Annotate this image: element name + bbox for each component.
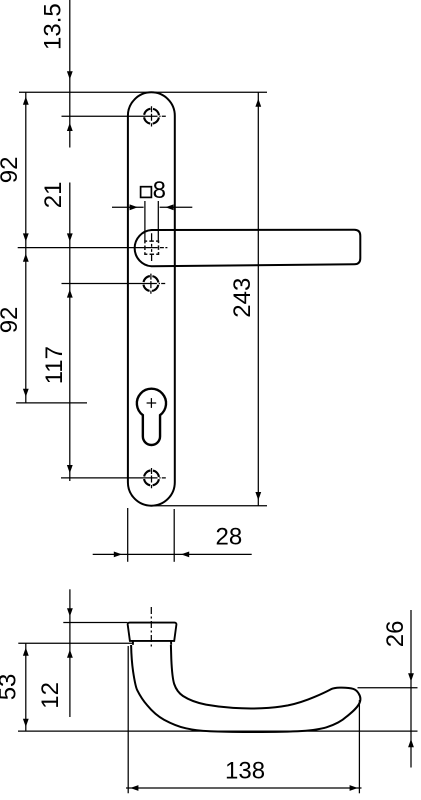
keyhole cross [147,402,157,404]
extension 26 top [358,687,418,689]
arrow 92u bottom [23,233,29,241]
arrow 12 upper [67,608,73,616]
svg-text:12: 12 [37,682,64,709]
svg-text:8: 8 [153,177,166,204]
arrow 92l bottom [23,389,29,397]
square symbol of label [141,187,152,198]
svg-text:28: 28 [216,524,243,551]
arrow 53 lower [23,719,29,727]
spindle square hidden [145,241,159,254]
arrow 117 lower [67,465,73,473]
svg-text:53: 53 [0,674,22,701]
plate outline [128,92,175,505]
handle grip profile [131,645,360,732]
extension lines 28 [127,508,129,562]
extension 138 right [358,700,360,793]
screw hole middle [143,276,158,291]
screw hole top [144,109,159,124]
dimension 26 vertical [410,610,412,768]
arrow 13.5 upper [67,71,73,79]
svg-text:138: 138 [225,758,265,785]
arrow 92u top [23,97,29,105]
hub block (top view) [128,623,177,641]
arrow 53 upper [23,648,29,656]
arrow 138 right [350,785,358,791]
arrow 12 lower [67,650,73,658]
dimension column x=70 lower segment [69,183,71,482]
dimension column x=26 (92 upper / 92 lower) [25,92,27,403]
extension line spindle centerline [18,247,158,249]
spindle vertical centerline [151,233,153,261]
arrow 26 lower [408,739,414,747]
arrow 243 bottom [255,492,261,500]
arrow 26 upper [408,673,414,681]
svg-text:243: 243 [229,278,256,318]
extension collar bottom [18,642,133,644]
extension line screw3 centerline [61,477,158,479]
extension handle bottom tangent [18,730,418,732]
euro cylinder keyhole [137,389,166,445]
screw hole bottom [144,470,159,485]
arrow 117 upper [67,289,73,297]
extension line plate bottom [150,505,267,507]
hub collar [133,641,171,645]
svg-text:13.5: 13.5 [40,3,67,50]
dimension 28 [93,553,252,555]
dimension 8 line [112,206,144,208]
extension line top screw centerline [62,115,158,117]
dimension 138 horizontal [126,787,362,789]
arrow 8 right [165,204,173,210]
arrow 28 right [181,552,189,558]
extension lines square hole [144,201,146,241]
arrow 13.5 lower / 21 upper [67,123,73,131]
svg-text:92: 92 [0,307,23,334]
svg-text:92: 92 [0,156,23,183]
arrow 243 top [255,99,261,107]
dimension column x=70 (13.5 / 21 / 117) [69,0,71,148]
hub centerline dashed [150,607,152,648]
handle lever front view [135,230,361,266]
arrow 21 lower [67,233,73,241]
dimension 53 vertical [25,643,27,731]
dimension 12 vertical [69,589,71,717]
arrow 138 left [130,785,138,791]
extension 138 left [127,646,129,793]
arrow 8 left [130,204,138,210]
svg-text:21: 21 [40,181,67,208]
svg-text:26: 26 [382,620,409,647]
arrow 92l top [23,254,29,262]
extension hub top [63,622,127,624]
extension line cylinder centerline [16,402,87,404]
arrow 28 left [114,552,122,558]
svg-text:117: 117 [41,346,68,384]
extension line screw2 centerline [62,283,157,285]
extension line plate top [19,91,267,93]
dimension 243 vertical line [257,92,259,505]
